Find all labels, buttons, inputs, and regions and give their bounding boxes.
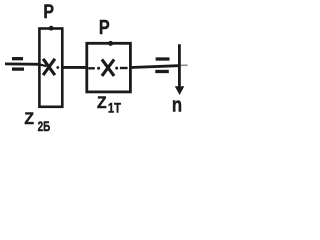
svg-text:2Б: 2Б: [38, 119, 51, 134]
gear cross X in Z1T: [102, 59, 114, 76]
rotation arrow n shaft: [178, 44, 181, 87]
svg-text:Z: Z: [97, 94, 107, 112]
gear block Z1T box: [87, 43, 131, 92]
axis stub inside Z2B box: [40, 65, 47, 67]
shaft axis segment right of Z1T: [131, 66, 179, 68]
axis chain dot right of X in Z2B: [56, 66, 59, 69]
chain line dot left in Z1T: [97, 67, 100, 70]
svg-text:P: P: [43, 2, 54, 23]
svg-text:P: P: [99, 17, 110, 39]
gear block Z2B box: [39, 29, 62, 107]
chain line dash left in Z1T: [88, 67, 95, 69]
left fixed support (frame) middle line / shaft axis segment: [5, 63, 40, 66]
faint axis stub right of arrow: [179, 64, 188, 66]
left support top bar: [12, 57, 23, 60]
svg-text:Z: Z: [24, 110, 34, 128]
chain line dash right in Z1T: [120, 67, 128, 69]
pivot dot on top edge of Z1T box: [108, 41, 113, 46]
shaft axis segment between blocks: [63, 66, 88, 69]
left support bottom bar: [12, 67, 24, 70]
rotation arrow n head: [175, 86, 185, 95]
svg-text:1Т: 1Т: [108, 100, 122, 115]
svg-text:n: n: [172, 94, 182, 116]
right support bottom bar: [155, 70, 169, 73]
chain line dot right in Z1T: [115, 67, 118, 70]
pivot dot on top edge of Z2B box: [49, 26, 54, 31]
right support top bar: [156, 57, 170, 60]
gear cross X in Z2B: [43, 59, 55, 75]
